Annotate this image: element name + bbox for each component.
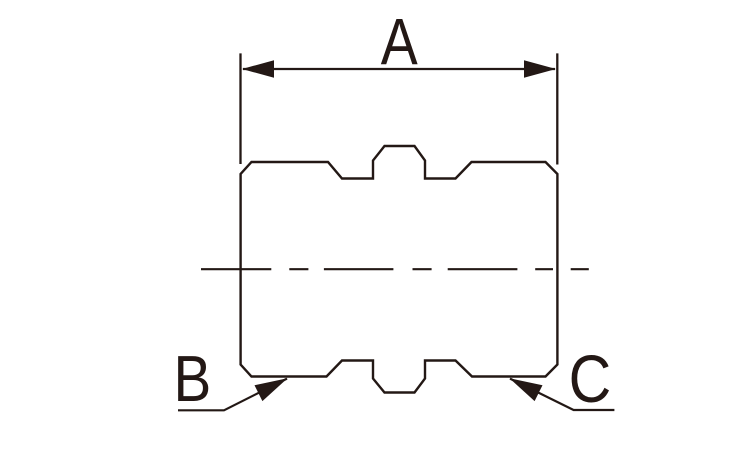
- arrowhead B: [255, 378, 288, 401]
- svg-text:C: C: [569, 343, 612, 417]
- centerline dash 4: [571, 268, 589, 270]
- arrowhead C: [510, 378, 543, 401]
- extension line right: [556, 53, 558, 164]
- extension line left: [239, 53, 241, 164]
- centerline long segment 3: [448, 268, 518, 270]
- svg-text:B: B: [174, 342, 212, 415]
- arrowhead right: [524, 60, 556, 78]
- arrowhead left: [242, 60, 274, 78]
- centerline dash 2: [413, 268, 432, 270]
- svg-text:A: A: [381, 5, 418, 79]
- dimension line A: [243, 68, 555, 70]
- centerline dash 3: [535, 268, 553, 270]
- centerline long segment 1: [201, 268, 271, 270]
- leader line B: [178, 379, 287, 411]
- part outline: [241, 146, 558, 393]
- centerline long segment 2: [324, 268, 394, 270]
- leader line C: [510, 379, 614, 410]
- centerline dash 1: [289, 268, 308, 270]
